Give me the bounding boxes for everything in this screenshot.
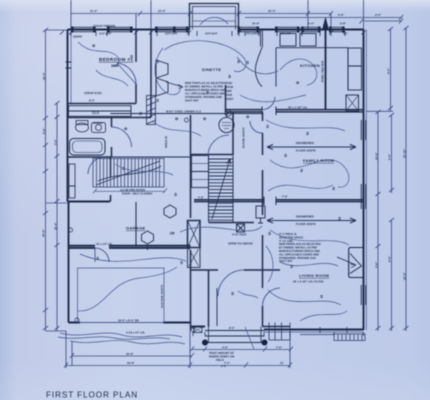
wire living upper — [270, 230, 349, 245]
svg-text:7'-2": 7'-2" — [224, 361, 231, 365]
svg-text:PORC TILE FLR: PORC TILE FLR — [321, 61, 325, 82]
wire garage upper — [80, 254, 186, 261]
wire driveway wave 1 — [60, 333, 182, 337]
top dimension line — [71, 13, 331, 15]
driveway outline — [78, 268, 165, 323]
svg-text:SELECTED SPACE: SELECTED SPACE — [279, 235, 303, 239]
section arrow beam — [325, 26, 327, 110]
stair north wall — [191, 154, 234, 156]
svg-text:3" A TREJL B.: 3" A TREJL B. — [279, 232, 297, 236]
foyer west wall — [208, 270, 210, 327]
svg-text:5'-4": 5'-4" — [308, 22, 315, 26]
wire living left — [266, 246, 273, 282]
svg-text:3'0"x4'6": 3'0"x4'6" — [280, 32, 292, 36]
wire hall — [152, 121, 201, 136]
svg-text:2x10 FLR JOISTS: 2x10 FLR JOISTS — [160, 285, 164, 308]
garage entry door arc — [95, 248, 109, 262]
svg-text:S: S — [332, 186, 335, 191]
hall west wall — [110, 157, 112, 202]
left dimension line outer — [46, 30, 68, 331]
annotation joists family — [296, 141, 316, 226]
rotated dim texts — [42, 61, 407, 308]
post 4x4 — [237, 224, 245, 232]
svg-text:CEDAR SLDG: CEDAR SLDG — [84, 91, 102, 95]
top wall — [68, 29, 364, 31]
annotation porch — [209, 326, 236, 368]
svg-text:10'-4": 10'-4" — [268, 9, 276, 13]
svg-text:(2)2640: (2)2640 — [73, 35, 82, 39]
svg-text:8'-0": 8'-0" — [89, 99, 96, 103]
hall/family wall — [262, 112, 264, 215]
svg-text:16'-4": 16'-4" — [54, 222, 58, 230]
P circle — [225, 110, 231, 116]
extension lines top edge — [71, 0, 364, 30]
svg-text:⊖: ⊖ — [124, 126, 128, 131]
wire kitchen left — [237, 57, 278, 74]
svg-text:S: S — [231, 291, 234, 296]
svg-text:S: S — [338, 216, 341, 221]
svg-text:3-1/2 x 14" LVL: 3-1/2 x 14" LVL — [126, 331, 145, 335]
dinette leader arrow — [166, 82, 183, 88]
svg-text:LIVING ROOM: LIVING ROOM — [299, 273, 330, 278]
bottom dimension line mid — [72, 342, 192, 366]
svg-text:S: S — [156, 98, 159, 103]
svg-text:WALK IN: WALK IN — [164, 136, 168, 148]
annotation block living — [279, 232, 321, 263]
svg-text:S: S — [290, 264, 293, 269]
svg-text:10'-0": 10'-0" — [252, 22, 260, 26]
svg-text:11'-2": 11'-2" — [90, 9, 98, 13]
svg-text:13'-6": 13'-6" — [375, 152, 379, 160]
bath south wall — [68, 156, 112, 158]
svg-text:ALL APPLICABLE CODES AND: ALL APPLICABLE CODES AND — [279, 252, 319, 256]
porch — [205, 327, 265, 343]
svg-text:16'-0" x 8'-0" DR: 16'-0" x 8'-0" DR — [118, 319, 139, 323]
foyer sidelights — [194, 327, 203, 333]
wire bedroom — [78, 42, 119, 66]
wire family mid — [270, 160, 349, 187]
bedroom door arc — [117, 63, 136, 84]
wire living bottom — [300, 311, 347, 321]
wire top left — [96, 70, 128, 86]
svg-text:19'-8": 19'-8" — [127, 361, 135, 365]
svg-text:7'-6": 7'-6" — [276, 345, 283, 349]
svg-text:1/2 HR FIRE RATED: 1/2 HR FIRE RATED — [120, 188, 145, 192]
svg-text:S: S — [246, 60, 249, 65]
right stoop rails — [269, 323, 290, 341]
laundry wall — [225, 85, 227, 112]
stair enclosure top wall — [112, 156, 191, 158]
svg-text:SHUT OFF: SHUT OFF — [279, 259, 293, 263]
svg-text:S: S — [300, 168, 303, 173]
linen closet hatched wall — [147, 96, 156, 125]
mudroom/garage divider — [135, 202, 137, 246]
svg-text:8'-6": 8'-6" — [388, 255, 392, 262]
wire family low — [268, 185, 333, 191]
right stoop steps — [300, 334, 365, 341]
bottom wall inner face — [264, 331, 364, 333]
svg-text:DRYER: DRYER — [225, 86, 234, 89]
svg-text:DR: DR — [170, 232, 175, 236]
svg-text:W 8'1" STEEL GIRDER CLG: W 8'1" STEEL GIRDER CLG — [166, 110, 201, 114]
exterior walls — [68, 30, 364, 331]
wire living low — [268, 290, 341, 305]
svg-text:NEW THISTLAG AS SELECTED: NEW THISTLAG AS SELECTED — [185, 81, 225, 85]
svg-text:8'-0": 8'-0" — [229, 326, 236, 330]
svg-text:36' x 3 1/2" LVL FLUSH: 36' x 3 1/2" LVL FLUSH — [293, 280, 323, 284]
svg-text:S: S — [237, 59, 240, 64]
svg-text:CEDAR TIMBERS: CEDAR TIMBERS — [93, 24, 116, 28]
left dimension line inner — [56, 103, 58, 331]
bathtub — [70, 139, 106, 156]
svg-text:S: S — [156, 59, 159, 64]
annotation top — [84, 24, 349, 200]
hall door arc — [88, 157, 105, 174]
svg-text:S: S — [96, 256, 99, 261]
center spine wall — [190, 115, 192, 330]
right wall inner face — [365, 30, 367, 331]
garage top header wall — [69, 246, 191, 248]
svg-text:BY OWNER. INSTALL AS PER: BY OWNER. INSTALL AS PER — [279, 246, 317, 250]
svg-text:DINETTE: DINETTE — [202, 67, 221, 72]
family/living divider wall — [194, 200, 364, 202]
bedroom east wall — [135, 30, 137, 104]
svg-text:S: S — [139, 111, 142, 116]
garage door opener box — [256, 206, 265, 223]
right dimension line C — [391, 115, 393, 331]
hall east wall upper — [232, 112, 234, 155]
basement stair hatch — [93, 159, 164, 188]
svg-text:ALL APPLICABLE CODES AND: ALL APPLICABLE CODES AND — [185, 92, 225, 96]
foyer sidelight wall — [191, 326, 291, 328]
svg-text:5'-0": 5'-0" — [54, 138, 58, 145]
svg-text:5'-6": 5'-6" — [198, 196, 205, 200]
svg-text:⊖: ⊖ — [92, 43, 96, 48]
svg-text:12'-4": 12'-4" — [42, 72, 46, 80]
right dimension line A — [377, 112, 379, 331]
svg-text:FAMILY ROOM: FAMILY ROOM — [303, 158, 334, 163]
bath door arc — [112, 127, 132, 147]
bath sink — [92, 123, 106, 133]
bay window top — [190, 4, 239, 30]
svg-text:BSMT: BSMT — [225, 90, 232, 93]
svg-text:5'-0": 5'-0" — [338, 13, 345, 17]
top dimension line right — [245, 18, 402, 22]
svg-text:DOOR - SELF CLOSING: DOOR - SELF CLOSING — [122, 192, 152, 196]
svg-text:FIRST FLOOR PLAN: FIRST FLOOR PLAN — [46, 391, 138, 400]
svg-text:ENGINEERED: ENGINEERED — [296, 141, 314, 145]
extension lines bottom — [46, 203, 291, 368]
bedroom south wall — [68, 103, 137, 105]
door swing arcs — [88, 63, 280, 306]
svg-text:BEDROOM #1: BEDROOM #1 — [99, 57, 133, 62]
svg-text:S: S — [266, 124, 269, 129]
ceiling light circle — [219, 114, 234, 133]
wire living mid2 — [280, 262, 338, 266]
svg-text:11': 11' — [280, 361, 284, 365]
kitchen/family divider wall — [226, 110, 364, 112]
wire garage S — [77, 267, 177, 311]
windows top wall — [73, 27, 343, 31]
svg-text:WASH: WASH — [225, 82, 232, 85]
garage door line — [80, 322, 163, 324]
wire dinette big — [164, 41, 246, 72]
svg-text:S: S — [284, 153, 287, 158]
svg-text:12'0"x4'6": 12'0"x4'6" — [165, 32, 179, 36]
bottom wall — [191, 327, 364, 330]
front door arc — [218, 270, 244, 296]
window end blocks top wall — [71, 27, 345, 33]
fireplace — [337, 248, 364, 278]
hall door arc top — [208, 135, 229, 156]
svg-text:⊖: ⊖ — [175, 116, 179, 121]
svg-text:TRAIT AMOUNT OF: TRAIT AMOUNT OF — [209, 351, 234, 355]
bottom dim texts — [126, 345, 284, 365]
laundry text rows — [225, 82, 234, 101]
svg-text:KITCHEN: KITCHEN — [300, 63, 320, 68]
svg-text:2'-8": 2'-8" — [340, 22, 347, 26]
svg-text:3'-6": 3'-6" — [375, 261, 379, 268]
svg-text:4"x4" POST: 4"x4" POST — [232, 233, 247, 237]
svg-text:3050: 3050 — [111, 64, 119, 68]
annotation block dinette — [185, 81, 226, 103]
svg-text:8'-6": 8'-6" — [42, 127, 46, 134]
svg-text:9'-0": 9'-0" — [387, 67, 391, 74]
svg-text:S: S — [268, 231, 271, 236]
garage hexagon light — [142, 231, 154, 250]
svg-text:4" CC AND: 4" CC AND — [279, 239, 293, 243]
steel girder line — [111, 113, 263, 115]
dim tick marks along top wall row — [60, 31, 366, 37]
bath east wall — [111, 118, 113, 158]
wire driveway wave 2 — [70, 340, 185, 344]
annotation garage — [96, 188, 152, 335]
family room door arc — [250, 121, 263, 133]
kitchen counter — [255, 30, 361, 112]
living west wall — [262, 235, 264, 327]
toilet — [76, 121, 89, 133]
wire garage right — [180, 226, 262, 232]
svg-text:6'0"x4'6": 6'0"x4'6" — [246, 32, 258, 36]
wiring squiggles — [58, 41, 349, 349]
right wall — [363, 30, 365, 331]
svg-text:CLO: CLO — [92, 111, 100, 115]
living room joist arrow — [267, 218, 356, 223]
svg-text:5'-6": 5'-6" — [388, 153, 392, 160]
svg-text:⊖: ⊖ — [296, 80, 300, 85]
wire kitchen right — [280, 59, 317, 85]
wire bath hall — [115, 164, 173, 175]
svg-text:3'0": 3'0" — [343, 32, 349, 36]
svg-text:STAIR: STAIR — [225, 94, 232, 97]
living door arc — [263, 288, 281, 306]
wire family upper — [266, 120, 345, 131]
svg-text:3040SH: 3040SH — [93, 121, 103, 125]
svg-text:12'-0": 12'-0" — [158, 9, 166, 13]
svg-text:40'-6": 40'-6" — [42, 229, 46, 237]
svg-text:ENGINEERED: ENGINEERED — [296, 215, 314, 219]
svg-text:11'2"x9'6": 11'2"x9'6" — [99, 32, 112, 36]
svg-text:19'-0": 19'-0" — [403, 272, 407, 280]
svg-text:36' x 1 1/8" LVL: 36' x 1 1/8" LVL — [288, 106, 308, 110]
hexagon A — [164, 205, 176, 218]
switch letters — [96, 54, 341, 299]
svg-text:S: S — [122, 166, 125, 171]
fire door dim line — [93, 188, 167, 193]
svg-text:SHUT OFF: SHUT OFF — [185, 99, 199, 103]
window left wall — [66, 62, 72, 68]
svg-text:S: S — [320, 294, 323, 299]
left dim ticks — [43, 101, 60, 330]
svg-text:RISERS VERIFY ON: RISERS VERIFY ON — [209, 354, 234, 358]
bottom dimension line outer — [66, 365, 290, 367]
opening ticks kitchen wall — [262, 107, 276, 206]
svg-text:MANUFACTURERS SPECS AND: MANUFACTURERS SPECS AND — [279, 249, 320, 253]
wire into bay — [200, 17, 228, 25]
svg-text:MANUFACTURERS SPECS AND: MANUFACTURERS SPECS AND — [185, 88, 226, 92]
foyer north wall — [191, 269, 281, 271]
svg-text:NEW FIREPLACE AS SELECTED: NEW FIREPLACE AS SELECTED — [279, 242, 321, 246]
bottom dimension line inner — [192, 349, 291, 351]
outlet symbols — [92, 43, 300, 131]
bedroom/dinette wall — [150, 30, 152, 118]
svg-text:GARAGE: GARAGE — [126, 226, 145, 231]
svg-text:⊖: ⊖ — [203, 116, 207, 121]
svg-text:BY OWNER. INSTALL AS PER: BY OWNER. INSTALL AS PER — [185, 85, 223, 89]
svg-text:12'0"x9'4": 12'0"x9'4" — [205, 32, 219, 36]
garage left wall — [68, 202, 70, 323]
bath north wall — [68, 117, 152, 119]
stair landing wall — [209, 222, 255, 224]
chimney box — [188, 221, 201, 268]
right dimension line outer — [405, 28, 407, 331]
dinette cabinet — [156, 60, 168, 96]
svg-text:FLOOR JOISTS: FLOOR JOISTS — [296, 222, 316, 226]
porch posts — [202, 340, 208, 346]
right dimension line B — [366, 29, 393, 111]
wire dinette left — [155, 48, 180, 95]
svg-text:VERIFY: VERIFY — [225, 98, 234, 101]
svg-text:STANDARDS. PROVIDE GND: STANDARDS. PROVIDE GND — [185, 95, 222, 99]
svg-text:7'-6": 7'-6" — [282, 195, 289, 199]
svg-text:16' x 14" LVL: 16' x 14" LVL — [96, 242, 113, 246]
wire kitchen low — [240, 95, 306, 102]
svg-text:STANDARDS. PROVIDE GAS: STANDARDS. PROVIDE GAS — [279, 256, 316, 260]
svg-text:S: S — [306, 131, 309, 136]
svg-text:OPEN TO ABOVE: OPEN TO ABOVE — [228, 242, 253, 246]
wire driveway wave 3 — [58, 337, 170, 340]
mudroom wall — [68, 201, 111, 203]
porch leader line — [245, 327, 254, 349]
svg-text:3'-0": 3'-0" — [375, 13, 382, 17]
dimension frame — [43, 0, 409, 368]
kitchen door arc — [262, 97, 275, 110]
left wall — [67, 30, 69, 202]
junction circles — [69, 118, 196, 332]
garage front wall stubs — [69, 322, 191, 324]
stair closets — [192, 156, 209, 188]
svg-text:S: S — [174, 192, 177, 197]
svg-text:S: S — [180, 260, 183, 265]
svg-text:S: S — [228, 74, 231, 79]
mudroom bench — [69, 164, 75, 198]
svg-text:16'-8": 16'-8" — [126, 352, 134, 356]
left wall inner face — [70, 31, 72, 103]
dim tick marks bottom walls — [193, 327, 364, 336]
svg-text:⊖: ⊖ — [246, 114, 250, 119]
svg-text:21'-10": 21'-10" — [403, 148, 407, 158]
svg-text:4'-6": 4'-6" — [222, 345, 229, 349]
front door frame — [216, 288, 218, 326]
top dim texts — [90, 9, 382, 26]
closet bedroom — [69, 106, 132, 117]
interior walls — [68, 30, 364, 331]
main staircase — [209, 156, 234, 223]
family room joist arrow — [267, 145, 356, 150]
svg-text:FLOOR JOISTS: FLOOR JOISTS — [296, 149, 316, 153]
wire foyer — [238, 291, 258, 298]
windows right wall — [361, 120, 365, 305]
svg-text:FLOOR JOISTS: FLOOR JOISTS — [242, 127, 246, 148]
svg-text:FIELD: FIELD — [216, 358, 224, 362]
